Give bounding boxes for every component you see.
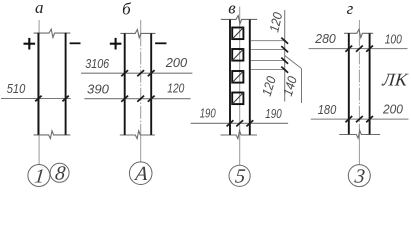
svg-text:а: а	[35, 0, 44, 17]
svg-text:190: 190	[265, 106, 282, 121]
svg-text:г: г	[347, 0, 354, 18]
svg-text:120: 120	[167, 80, 185, 95]
svg-text:в: в	[228, 0, 236, 18]
svg-text:3106: 3106	[85, 56, 110, 71]
svg-text:180: 180	[318, 102, 337, 117]
svg-text:200: 200	[382, 102, 404, 117]
svg-text:б: б	[122, 0, 131, 19]
svg-text:3: 3	[353, 166, 366, 188]
svg-text:200: 200	[165, 55, 188, 70]
svg-text:ЛК: ЛК	[381, 70, 410, 90]
svg-text:390: 390	[87, 81, 110, 96]
svg-text:100: 100	[385, 31, 403, 46]
svg-text:280: 280	[314, 31, 336, 46]
svg-text:190: 190	[200, 106, 217, 121]
svg-text:510: 510	[7, 81, 26, 96]
